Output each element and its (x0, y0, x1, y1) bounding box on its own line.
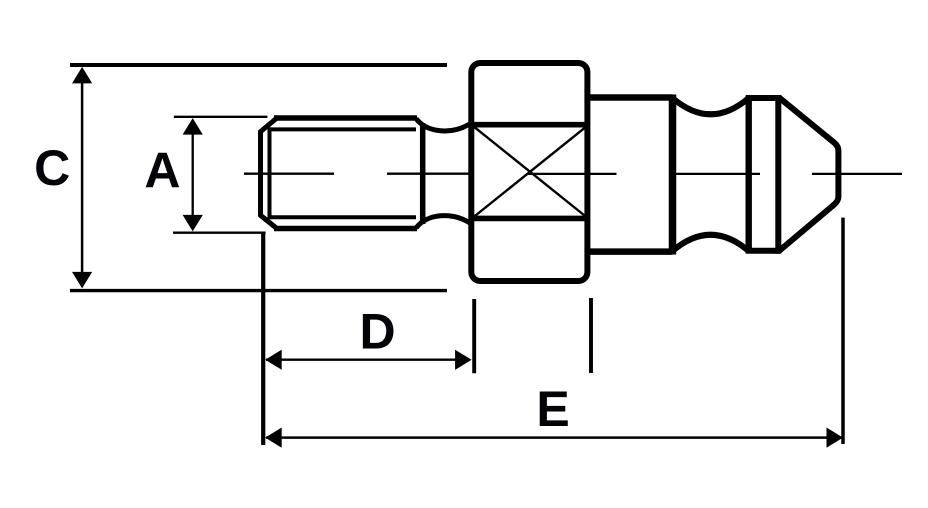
center line (244, 173, 334, 175)
thread chamfer top (260, 118, 278, 133)
dimension D line (266, 359, 469, 361)
svg-text:C: C (34, 140, 70, 196)
band left edge (746, 96, 752, 254)
thread minor diameter bottom line (270, 215, 417, 219)
svg-text:D: D (359, 304, 395, 360)
band bottom line (746, 248, 780, 254)
svg-text:A: A (144, 143, 180, 199)
dimension D arrow right (455, 350, 472, 370)
neck fillet top (416, 119, 471, 131)
dimension A line (192, 121, 194, 228)
thread left end edge (258, 131, 263, 216)
band top line (746, 95, 780, 101)
cone tip profile (779, 98, 838, 252)
shaft bottom line (588, 248, 673, 255)
dimension C top extension line (70, 63, 447, 67)
dimension A top extension line (174, 116, 268, 118)
dimension A bottom extension line (173, 232, 266, 234)
groove bottom arc (673, 235, 749, 251)
dimension C line (81, 70, 84, 285)
svg-text:E: E (536, 381, 569, 437)
thread major diameter bottom line (274, 226, 417, 232)
thread chamfer edge vertical (268, 127, 272, 219)
dimension A arrow down (183, 215, 203, 232)
flange outline (471, 63, 587, 281)
shaft top line (588, 94, 673, 101)
neck fillet bottom (416, 216, 471, 228)
dimension E arrow left (265, 428, 282, 448)
dimension D arrow left (265, 350, 282, 370)
thread minor diameter top line (270, 127, 417, 131)
dimension D/E left extension line (261, 233, 265, 445)
dimension C arrow down (72, 272, 92, 289)
dimension A arrow up (183, 118, 203, 135)
shaft right edge (669, 95, 677, 255)
dimension E line (266, 436, 841, 439)
thread major diameter top line (274, 115, 417, 121)
dimension C arrow up (72, 67, 92, 84)
thread chamfer bottom (260, 215, 278, 230)
dimension E arrow right (827, 428, 844, 448)
dimension D right extension line (472, 299, 476, 373)
thread runout vertical (420, 123, 426, 224)
flange cross diagonal 1 (473, 126, 587, 218)
flange inner top line (470, 122, 588, 128)
dimension E right extension line (841, 218, 845, 444)
groove top arc (673, 98, 749, 114)
dimension C bottom extension line (70, 289, 447, 292)
band right edge (775, 95, 781, 254)
flange cross diagonal 2 (473, 126, 587, 218)
flange right extension line (589, 298, 593, 373)
flange inner bottom line (470, 216, 588, 222)
